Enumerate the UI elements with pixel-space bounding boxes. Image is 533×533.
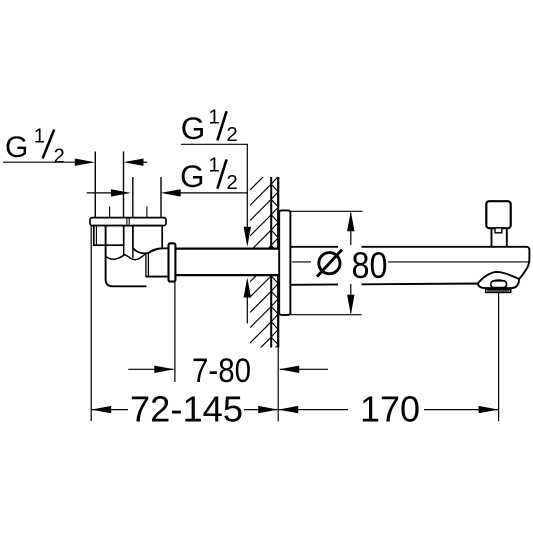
dim Ø80 arrow up [347,211,354,231]
dim 72-145 arrow right [258,406,278,413]
dim 72-145 arrow left [91,406,111,413]
svg-text:G: G [180,158,205,194]
svg-text:G: G [181,110,206,146]
aerator mousepiece [491,281,507,288]
diverter stem notch [495,228,502,233]
outlet tailpiece bottom edge [146,276,169,278]
wall hatch [245,168,273,379]
joint double line [145,253,147,277]
label G1/2 no.3 [180,154,238,195]
svg-text:2: 2 [54,146,65,168]
svg-text:1: 1 [208,154,219,177]
inlet pipe 1 [94,152,96,218]
dim 72-145 left extension line [90,226,92,421]
wall rough face line [270,177,272,348]
flange divider [126,218,128,226]
spout underside hump profile at tip [478,272,519,284]
svg-text:2: 2 [226,123,237,146]
svg-text:G: G [5,131,28,164]
wall plaster zigzag hatch [271,169,278,360]
svg-text:80: 80 [352,245,388,286]
label G1/2 no.2 underline [181,143,248,145]
channel wall left [123,245,125,256]
dim Ø80 top extension line [290,210,362,212]
dim Ø80 arrow down [347,295,354,315]
dim Ø80 bottom extension line [290,314,361,316]
label G1/2 no.2 [181,105,238,146]
inlet pipe 2 centerline tick [146,207,148,218]
spout body [290,247,529,288]
spout centerline [292,261,311,263]
elbow body outline [106,226,147,287]
union cup left [94,226,124,246]
dim 7-80 arrow right [154,366,174,373]
dim 72-145 dimension line [91,409,128,411]
svg-text:2: 2 [226,171,237,194]
inlet pipe 2 [132,177,134,218]
label G1/2 no.3 arrow left to pipe2 [161,189,181,196]
dim 170 dimension line [278,409,348,411]
label G1/2 no.2 leader vertical [246,144,248,228]
label G1/2 no.2 arrow down to pipe top [244,227,251,247]
label G1/2 no.3 underline/leader [179,192,248,194]
elbow body white silhouette [106,245,147,286]
pipe1 right wall arrow [124,159,144,166]
escutcheon flange at wall [279,210,290,315]
union cup right [133,226,162,254]
label G1/2 no.1 leader arrow [75,159,95,166]
union nut at outlet [169,243,176,281]
pipe bottom arrow up [244,278,251,298]
connecting pipe through wall (white over hatch) [175,248,279,275]
outlet tailpiece top edge [149,248,169,253]
svg-text:7-80: 7-80 [192,352,251,390]
dim Ø80 dimension line [350,213,352,245]
label G1/2 no.1 [5,126,65,168]
dim 7-80 arrow left [279,366,299,373]
outlet tailpiece white silhouette [146,248,175,276]
dim Ø80 diameter symbol [319,253,340,274]
svg-text:1: 1 [34,126,45,148]
dim 170 arrow right [479,406,499,413]
aerator ring [486,290,511,293]
dim 7-80 left extension line [174,282,176,382]
svg-text:170: 170 [360,389,420,430]
svg-text:1: 1 [208,105,219,128]
elbow body wavy top [106,253,146,260]
union flange plate [90,218,166,226]
dim 170 right extension line (from aerator) [498,293,500,422]
knockout gaps in spout edges at dim line [338,243,362,250]
dim 170 arrow left [278,406,298,413]
channel wall right [132,248,134,257]
dim 7-80 dimension line right [280,368,328,370]
svg-text:72-145: 72-145 [130,389,243,430]
wall face extension line below wall [277,348,279,422]
dim 7-80 dimension line left [128,368,173,370]
diverter stem [492,228,507,246]
pipe2 left wall arrow [87,192,112,194]
label G1/2 no.1 leader line [3,161,76,163]
diverter knob [486,201,510,228]
wall finished face line [277,177,279,348]
inlet pipe 1 centerline tick [109,207,111,218]
